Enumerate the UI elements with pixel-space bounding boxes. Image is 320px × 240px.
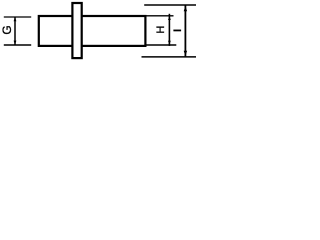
I top extension line bbox=[144, 4, 196, 6]
G arrow down bbox=[14, 41, 17, 45]
svg-text:G: G bbox=[0, 25, 14, 34]
background bbox=[0, 0, 196, 61]
H top extension line bbox=[147, 15, 174, 17]
I bottom extension line bbox=[142, 56, 197, 58]
G arrow up bbox=[14, 17, 17, 21]
H arrow up bbox=[168, 16, 171, 20]
G top extension line bbox=[4, 16, 31, 18]
flange (central band) bbox=[72, 3, 81, 58]
I arrow down bbox=[184, 51, 187, 57]
svg-text:H: H bbox=[155, 26, 167, 34]
I arrow up bbox=[184, 6, 187, 12]
body rectangle (shaft) bbox=[39, 16, 146, 46]
G bottom extension line bbox=[4, 44, 31, 46]
I dimension line bbox=[184, 6, 186, 57]
H bottom extension line bbox=[147, 44, 177, 46]
H dimension line bbox=[168, 14, 170, 46]
G dimension line bbox=[14, 17, 16, 44]
svg-text:I: I bbox=[172, 29, 184, 32]
H arrow down bbox=[168, 41, 171, 45]
